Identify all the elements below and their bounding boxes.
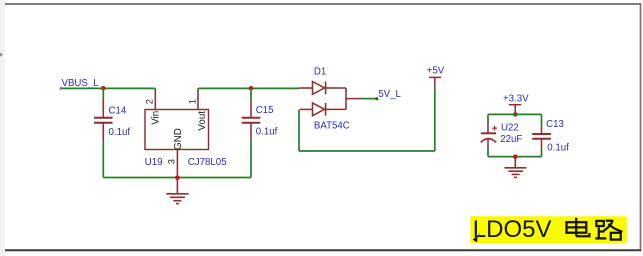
wire Vout rail to diode <box>198 87 300 89</box>
svg-text:CJ78L05: CJ78L05 <box>188 157 227 168</box>
title glyph 电 <box>567 218 590 237</box>
wire C15 to bottom rail <box>250 139 252 178</box>
diode D1 top half (BAT54C) <box>299 82 346 95</box>
wire bottom rail of 3.3V block <box>488 156 542 158</box>
junction at VBUS_L / C14 <box>101 86 106 91</box>
svg-text:1: 1 <box>187 99 197 104</box>
op-amp U19 body (regulator box) <box>145 110 209 150</box>
junction at 3.3V block ground <box>513 154 518 159</box>
svg-text:0.1uf: 0.1uf <box>256 127 278 138</box>
svg-text:3: 3 <box>166 159 176 164</box>
wire up from pin 1 <box>197 88 199 91</box>
junction at ground rail / pin3 <box>175 175 180 180</box>
wire down to U19 pin 2 <box>154 88 156 91</box>
small gray marker on left edge <box>0 53 3 57</box>
wire vertical up to +5V <box>434 88 436 151</box>
power port +3.3V <box>509 105 522 115</box>
power port +5V <box>429 77 441 88</box>
wire VBUS_L horizontal rail <box>61 87 155 89</box>
svg-text:+3.3V: +3.3V <box>503 94 529 105</box>
wire bottom diode to +5V: left vertical <box>298 109 300 151</box>
svg-text:C14: C14 <box>109 106 127 117</box>
title highlight box <box>470 216 627 243</box>
wire from junction down to C14 <box>102 88 104 98</box>
svg-text:LDO5V: LDO5V <box>473 216 552 243</box>
svg-text:VBUS_L: VBUS_L <box>62 78 100 89</box>
svg-text:U22: U22 <box>501 123 519 134</box>
pin 3 of U19 <box>176 150 178 178</box>
svg-text:5V_L: 5V_L <box>378 89 401 100</box>
wire top rail of 3.3V block <box>488 113 542 115</box>
capacitor C14 <box>94 98 113 142</box>
window frame bottom border <box>5 249 641 251</box>
wire C14 to bottom rail <box>102 142 104 178</box>
ground symbol (under U19) <box>166 178 188 204</box>
svg-text:C15: C15 <box>256 105 274 116</box>
capacitor C13 <box>532 127 551 148</box>
pin 2 of U19 <box>154 90 156 109</box>
svg-text:C13: C13 <box>546 119 564 130</box>
wire to 5V_L <box>362 98 377 100</box>
polarity plus sign of U22 <box>492 126 497 131</box>
mouse cursor <box>473 233 480 245</box>
svg-text:0.1uf: 0.1uf <box>547 142 569 153</box>
svg-text:GND: GND <box>173 128 184 150</box>
wire C13 to bottom rail <box>541 148 543 156</box>
junction at C15 <box>249 86 254 91</box>
window frame top border <box>5 3 641 5</box>
left gray gutter strip <box>0 0 5 256</box>
wire bottom horizontal to +5V <box>299 150 435 152</box>
wire end dot (open) <box>60 87 63 90</box>
wire end dot 5V_L <box>375 97 378 100</box>
svg-text:BAT54C: BAT54C <box>314 120 350 131</box>
svg-text:0.1uf: 0.1uf <box>109 127 131 138</box>
svg-text:Vin: Vin <box>150 111 161 125</box>
wire right branch down to C13 <box>541 114 543 127</box>
svg-text:2: 2 <box>145 99 155 104</box>
diode D1 bottom half <box>300 88 362 116</box>
wire bottom ground rail <box>103 177 251 179</box>
capacitor U22 (polarized) <box>481 121 497 147</box>
wire left branch down to U22 <box>487 114 489 121</box>
window frame right border <box>640 3 642 251</box>
wire junction down to C15 <box>250 88 252 101</box>
title glyph 路 <box>595 221 622 240</box>
svg-text:D1: D1 <box>314 67 326 78</box>
svg-text:U19: U19 <box>145 157 163 168</box>
svg-text:22uF: 22uF <box>500 134 522 145</box>
svg-text:Vout: Vout <box>197 111 208 131</box>
capacitor C15 <box>242 101 261 139</box>
wire U22 to bottom rail <box>487 147 489 157</box>
svg-text:+5V: +5V <box>427 65 445 76</box>
junction at +3.3V rail <box>513 112 518 117</box>
pin 1 of U19 <box>197 90 199 109</box>
ground symbol (3.3V block) <box>504 157 526 178</box>
